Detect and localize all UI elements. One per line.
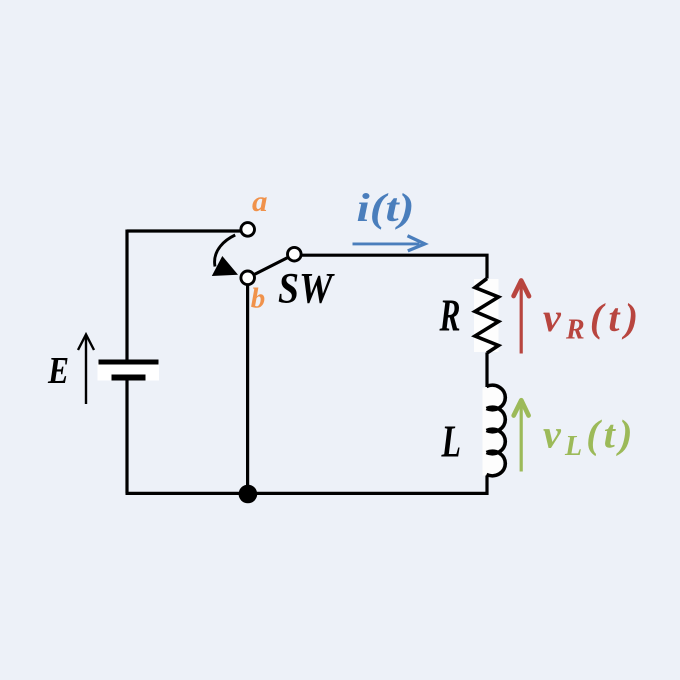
svg-text:R: R <box>439 291 461 341</box>
svg-text:SW: SW <box>278 266 335 313</box>
svg-text:L: L <box>441 416 461 466</box>
svg-text:a: a <box>252 185 268 218</box>
svg-text:vL(t): vL(t) <box>543 412 637 463</box>
svg-text:E: E <box>47 350 69 392</box>
svg-text:vR(t): vR(t) <box>543 295 643 346</box>
svg-text:b: b <box>251 283 265 315</box>
svg-text:i(t): i(t) <box>357 185 415 230</box>
